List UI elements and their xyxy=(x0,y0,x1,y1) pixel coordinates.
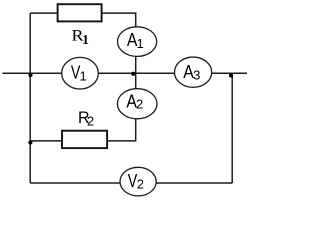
wire right vertical branch xyxy=(231,73,233,183)
junction node at left vertical x R2 branch xyxy=(28,140,32,144)
svg-text:1: 1 xyxy=(82,32,89,47)
wire left vertical branch xyxy=(29,13,31,183)
ammeter A3 body xyxy=(175,57,212,87)
wire A1 bottom to A2 top vertical xyxy=(135,38,137,106)
resistor R1 body xyxy=(58,4,102,21)
junction node on main wire left of A1/A2 branch xyxy=(131,72,135,76)
junction node at left vertical x main wire xyxy=(28,73,32,77)
voltmeter V2 body xyxy=(120,167,156,196)
wire top-left corner to R1 left terminal xyxy=(30,12,58,14)
resistor R2 body xyxy=(62,131,107,148)
wire R2 left terminal to left vertical xyxy=(30,140,63,142)
svg-text:1: 1 xyxy=(137,36,144,51)
svg-text:2: 2 xyxy=(136,97,143,112)
wire A2 bottom down and left to R2 right terminal xyxy=(106,101,136,141)
voltmeter V1 body xyxy=(62,57,99,89)
ammeter A1 body xyxy=(118,27,157,57)
junction node on main wire at right vertical xyxy=(229,73,233,77)
wire R1 right terminal to corner above A1 xyxy=(101,13,136,30)
wire bottom net through V2 xyxy=(30,182,232,184)
svg-text:2: 2 xyxy=(137,177,144,192)
svg-text:3: 3 xyxy=(193,67,200,82)
wire main horizontal net (left edge through V1 and A3 to right edge) xyxy=(2,72,247,74)
svg-text:1: 1 xyxy=(80,69,87,84)
svg-text:2: 2 xyxy=(87,114,94,129)
ammeter A2 body xyxy=(117,89,157,119)
